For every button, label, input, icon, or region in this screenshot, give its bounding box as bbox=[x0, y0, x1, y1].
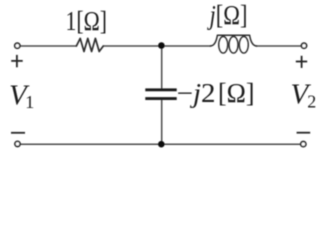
svg-text:V2: V2 bbox=[291, 79, 317, 112]
svg-text:j[Ω]: j[Ω] bbox=[207, 0, 248, 30]
svg-text:V1: V1 bbox=[9, 80, 34, 113]
svg-text:−j2: −j2 bbox=[177, 78, 216, 108]
svg-text:[Ω]: [Ω] bbox=[218, 78, 255, 108]
svg-text:1[Ω]: 1[Ω] bbox=[66, 6, 108, 36]
